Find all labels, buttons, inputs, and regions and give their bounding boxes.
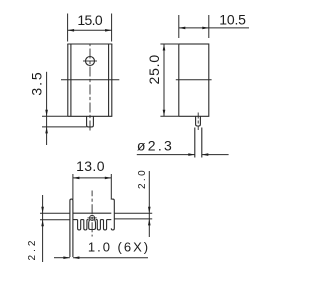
svg-text:2.0: 2.0 bbox=[137, 168, 148, 189]
svg-text:10.5: 10.5 bbox=[219, 11, 246, 27]
svg-text:25.0: 25.0 bbox=[146, 54, 162, 84]
svg-text:ø2.3: ø2.3 bbox=[137, 138, 174, 154]
svg-text:2.2: 2.2 bbox=[27, 238, 38, 261]
svg-text:3.5: 3.5 bbox=[29, 70, 45, 95]
svg-text:1.0 (6X): 1.0 (6X) bbox=[88, 240, 150, 255]
svg-text:13.0: 13.0 bbox=[76, 158, 105, 174]
svg-text:15.0: 15.0 bbox=[77, 12, 103, 28]
